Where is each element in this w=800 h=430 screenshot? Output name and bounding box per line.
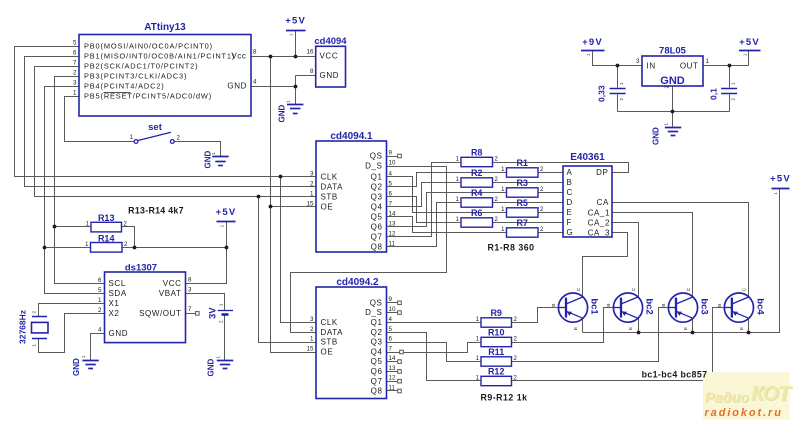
svg-text:4: 4 <box>98 327 102 334</box>
svg-text:8: 8 <box>253 49 257 56</box>
svg-text:R12: R12 <box>488 367 505 377</box>
svg-text:4: 4 <box>389 316 393 323</box>
svg-text:Радио: Радио <box>705 390 750 406</box>
svg-text:+5V: +5V <box>739 37 760 48</box>
svg-text:1: 1 <box>130 134 134 141</box>
svg-text:7: 7 <box>389 345 393 352</box>
svg-text:15: 15 <box>307 200 314 207</box>
svg-text:+9V: +9V <box>582 37 603 48</box>
svg-text:R7: R7 <box>516 218 528 228</box>
svg-text:CA_2: CA_2 <box>588 219 610 228</box>
svg-text:B: B <box>551 304 557 307</box>
svg-text:bc1: bc1 <box>589 298 600 315</box>
svg-text:1: 1 <box>98 297 102 304</box>
svg-text:14: 14 <box>389 355 396 362</box>
svg-text:ds1307: ds1307 <box>125 262 157 273</box>
svg-text:2: 2 <box>73 70 77 77</box>
svg-text:OE: OE <box>321 203 334 212</box>
svg-text:R1-R8 360: R1-R8 360 <box>487 243 534 253</box>
svg-text:X2: X2 <box>109 309 120 318</box>
svg-text:3: 3 <box>310 170 314 177</box>
svg-text:8: 8 <box>310 68 314 75</box>
svg-text:C: C <box>631 287 637 291</box>
svg-text:10: 10 <box>389 159 396 166</box>
svg-text:11: 11 <box>389 384 396 391</box>
svg-text:X1: X1 <box>109 299 120 308</box>
svg-text:IN: IN <box>647 62 656 71</box>
svg-text:6: 6 <box>73 50 77 57</box>
svg-text:DP: DP <box>596 168 608 177</box>
svg-text:GND: GND <box>660 75 685 87</box>
svg-text:R8: R8 <box>471 148 483 158</box>
svg-text:R11: R11 <box>488 347 504 357</box>
svg-text:8: 8 <box>188 276 192 283</box>
svg-text:GND: GND <box>652 127 661 145</box>
svg-text:2: 2 <box>98 307 102 314</box>
svg-text:32768Hz: 32768Hz <box>18 310 28 344</box>
svg-text:A: A <box>567 168 573 177</box>
svg-text:CLK: CLK <box>321 173 338 182</box>
svg-text:+5V: +5V <box>216 207 237 218</box>
svg-text:4: 4 <box>389 170 393 177</box>
svg-text:B: B <box>606 304 612 307</box>
svg-text:15: 15 <box>307 345 314 352</box>
svg-text:D_S: D_S <box>365 308 382 317</box>
svg-text:10: 10 <box>389 306 396 313</box>
svg-text:6: 6 <box>98 277 102 284</box>
svg-text:6: 6 <box>389 190 393 197</box>
svg-text:2: 2 <box>665 86 671 89</box>
svg-text:R14: R14 <box>98 233 115 243</box>
svg-text:13: 13 <box>389 365 396 372</box>
svg-text:+5V: +5V <box>285 16 306 27</box>
svg-text:SCL: SCL <box>109 279 126 288</box>
svg-text:cd4094.2: cd4094.2 <box>336 277 379 288</box>
svg-text:cd4094: cd4094 <box>314 36 347 47</box>
svg-text:7: 7 <box>188 306 192 313</box>
svg-text:2: 2 <box>310 326 314 333</box>
svg-text:0,33: 0,33 <box>597 85 607 102</box>
svg-text:78L05: 78L05 <box>659 45 687 56</box>
svg-text:R6: R6 <box>471 208 483 218</box>
svg-text:Q6: Q6 <box>371 367 383 376</box>
svg-text:6: 6 <box>389 335 393 342</box>
svg-text:E: E <box>573 327 579 330</box>
svg-text:Q7: Q7 <box>371 233 383 242</box>
svg-text:R13: R13 <box>98 213 115 223</box>
svg-text:OUT: OUT <box>680 62 699 71</box>
svg-text:bc2: bc2 <box>644 298 655 314</box>
svg-text:1: 1 <box>73 90 77 97</box>
svg-text:5: 5 <box>389 326 393 333</box>
svg-text:SDA: SDA <box>109 289 127 298</box>
svg-text:PB1(MISO/INT0/OC0B/AIN1/PCINT1: PB1(MISO/INT0/OC0B/AIN1/PCINT1) <box>84 52 235 61</box>
svg-text:2: 2 <box>177 135 181 142</box>
svg-text:C: C <box>686 287 692 291</box>
svg-text:R4: R4 <box>471 188 483 198</box>
svg-text:13: 13 <box>389 220 396 227</box>
svg-text:12: 12 <box>389 230 396 237</box>
svg-text:B: B <box>717 304 723 307</box>
svg-text:VBAT: VBAT <box>159 289 182 298</box>
svg-text:B: B <box>567 178 573 187</box>
svg-text:R5: R5 <box>516 198 528 208</box>
svg-text:PB4(PCINT4/ADC2): PB4(PCINT4/ADC2) <box>84 82 165 91</box>
svg-text:OE: OE <box>321 348 334 357</box>
svg-text:5: 5 <box>389 180 393 187</box>
svg-text:VCC: VCC <box>163 279 182 288</box>
svg-text:14: 14 <box>389 210 396 217</box>
svg-text:GND: GND <box>109 329 129 338</box>
svg-text:GND: GND <box>72 358 81 376</box>
svg-text:Q3: Q3 <box>371 193 383 202</box>
svg-text:GND: GND <box>320 71 340 80</box>
svg-text:7: 7 <box>73 60 77 67</box>
svg-text:radiokot.ru: radiokot.ru <box>705 407 783 419</box>
svg-text:R2: R2 <box>471 168 483 178</box>
svg-text:CLK: CLK <box>321 318 338 327</box>
svg-text:Q4: Q4 <box>371 348 383 357</box>
svg-text:GND: GND <box>207 359 216 377</box>
svg-text:Q5: Q5 <box>371 357 383 366</box>
svg-text:C: C <box>742 287 748 291</box>
svg-text:B: B <box>661 304 667 307</box>
svg-text:R3: R3 <box>516 178 528 188</box>
svg-text:GND: GND <box>227 82 247 91</box>
svg-text:Q8: Q8 <box>371 387 383 396</box>
svg-text:9: 9 <box>389 296 393 303</box>
svg-text:R9: R9 <box>490 308 502 318</box>
svg-text:E: E <box>567 208 573 217</box>
svg-text:DATA: DATA <box>321 183 344 192</box>
svg-text:3: 3 <box>188 286 192 293</box>
svg-text:1: 1 <box>310 335 314 342</box>
svg-text:PB2(SCK/ADC1/T0/PCINT2): PB2(SCK/ADC1/T0/PCINT2) <box>84 62 198 71</box>
svg-text:5: 5 <box>98 287 102 294</box>
svg-text:QS: QS <box>370 298 383 307</box>
svg-text:3V: 3V <box>208 307 219 319</box>
svg-text:set: set <box>148 122 163 133</box>
svg-text:Q7: Q7 <box>371 377 383 386</box>
svg-text:R9-R12 1k: R9-R12 1k <box>480 393 527 403</box>
svg-text:Q1: Q1 <box>371 173 383 182</box>
svg-text:1: 1 <box>310 190 314 197</box>
svg-text:PB3(PCINT3/CLKI/ADC3): PB3(PCINT3/CLKI/ADC3) <box>84 72 187 81</box>
svg-text:bc1-bc4 bc857: bc1-bc4 bc857 <box>642 370 708 380</box>
svg-text:ATtiny13: ATtiny13 <box>144 22 186 33</box>
svg-text:Q6: Q6 <box>371 223 383 232</box>
svg-text:Q2: Q2 <box>371 328 383 337</box>
svg-text:PB5(RESET/PCINT5/ADC0/dW): PB5(RESET/PCINT5/ADC0/dW) <box>84 92 212 101</box>
svg-text:PB0(MOSI/AIN0/OC0A/PCINT0): PB0(MOSI/AIN0/OC0A/PCINT0) <box>84 42 213 51</box>
svg-text:Q1: Q1 <box>371 318 383 327</box>
svg-text:D: D <box>567 198 573 207</box>
svg-text:DATA: DATA <box>321 328 344 337</box>
svg-text:R13-R14 4k7: R13-R14 4k7 <box>128 206 184 216</box>
svg-text:E: E <box>628 327 634 330</box>
svg-text:F: F <box>567 218 573 227</box>
svg-text:R10: R10 <box>488 328 505 338</box>
svg-text:SQW/OUT: SQW/OUT <box>139 309 181 318</box>
svg-text:G: G <box>567 228 574 237</box>
svg-text:C: C <box>567 188 573 197</box>
svg-text:16: 16 <box>307 49 314 56</box>
svg-text:11: 11 <box>389 240 396 247</box>
svg-text:D_S: D_S <box>365 162 382 171</box>
svg-text:Q5: Q5 <box>371 213 383 222</box>
svg-text:E: E <box>739 327 745 330</box>
svg-text:+5V: +5V <box>770 174 791 185</box>
svg-text:КОТ: КОТ <box>751 382 793 405</box>
svg-text:7: 7 <box>389 200 393 207</box>
svg-text:QS: QS <box>370 152 383 161</box>
svg-text:VCC: VCC <box>320 52 339 61</box>
svg-text:12: 12 <box>389 375 396 382</box>
svg-text:bc4: bc4 <box>754 298 765 315</box>
svg-text:1: 1 <box>706 58 710 65</box>
svg-text:cd4094.1: cd4094.1 <box>330 131 373 142</box>
svg-text:bc3: bc3 <box>699 298 710 314</box>
svg-text:CA_1: CA_1 <box>588 209 610 218</box>
svg-text:E: E <box>683 327 689 330</box>
svg-text:GND: GND <box>204 151 213 169</box>
svg-text:0,1: 0,1 <box>709 88 719 100</box>
svg-text:2: 2 <box>310 180 314 187</box>
svg-text:Q8: Q8 <box>371 243 383 252</box>
svg-text:STB: STB <box>321 338 338 347</box>
svg-text:Q2: Q2 <box>371 183 383 192</box>
svg-text:CA_3: CA_3 <box>588 229 610 238</box>
svg-text:3: 3 <box>310 316 314 323</box>
svg-text:GND: GND <box>278 105 287 123</box>
svg-text:4: 4 <box>253 79 257 86</box>
svg-text:9: 9 <box>389 149 393 156</box>
svg-text:3: 3 <box>73 80 77 87</box>
svg-text:R1: R1 <box>516 158 528 168</box>
svg-text:Vcc: Vcc <box>231 52 246 61</box>
svg-text:Q4: Q4 <box>371 203 383 212</box>
svg-text:5: 5 <box>73 40 77 47</box>
svg-text:CA: CA <box>597 198 609 207</box>
svg-text:C: C <box>576 287 582 291</box>
svg-text:STB: STB <box>321 193 338 202</box>
svg-text:3: 3 <box>636 58 640 65</box>
svg-text:Q3: Q3 <box>371 338 383 347</box>
svg-text:E40361: E40361 <box>570 152 605 163</box>
